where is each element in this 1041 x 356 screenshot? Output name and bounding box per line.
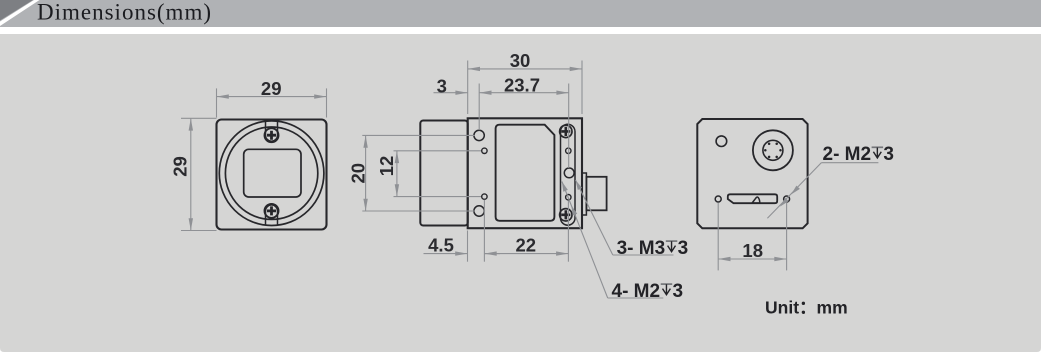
side left small hole bottom <box>482 194 487 199</box>
side top phillips screw <box>560 125 572 137</box>
side dim 4.5 line <box>424 253 468 255</box>
side connector plate <box>582 173 586 215</box>
svg-text:3: 3 <box>883 144 894 165</box>
back mount hole left <box>715 196 721 202</box>
back led hole <box>716 136 727 147</box>
front top screw <box>265 128 279 142</box>
side dim 3 line <box>434 92 468 94</box>
front dim 29 top line <box>217 96 327 98</box>
side leader 4-M2 <box>562 182 608 299</box>
side dim 12 line <box>396 151 398 197</box>
svg-text:29: 29 <box>170 156 191 177</box>
front bottom screw pocket <box>266 205 278 225</box>
back connector inner circle <box>763 140 783 160</box>
svg-text:29: 29 <box>261 78 282 99</box>
front inner lens circle <box>225 127 317 219</box>
side dim 12 extension lines <box>394 150 482 152</box>
header dark triangle <box>0 0 33 21</box>
side dim 20 extension lines <box>362 134 474 136</box>
header white stripe <box>0 0 40 26</box>
back connector outer circle <box>753 130 793 170</box>
side right small hole top <box>566 148 571 153</box>
svg-text:20: 20 <box>347 163 368 184</box>
front top screw pocket <box>266 121 278 141</box>
back mount hole right <box>784 196 790 202</box>
front dim 29 top extension lines <box>216 88 218 117</box>
svg-text:4- M2: 4- M2 <box>612 281 661 302</box>
svg-text:3- M3: 3- M3 <box>617 238 666 259</box>
svg-text:18: 18 <box>742 240 763 261</box>
front dim 29 left line <box>190 118 192 230</box>
side left small hole top <box>482 148 487 153</box>
back body square <box>697 119 807 228</box>
side leader 3-M3 <box>576 180 613 255</box>
front dim 29 left extension lines <box>181 117 217 119</box>
svg-text:30: 30 <box>510 50 531 71</box>
back dim 18 extension lines <box>717 203 719 271</box>
side bottom phillips screw <box>560 209 572 221</box>
svg-text:3: 3 <box>673 281 684 302</box>
svg-text:4.5: 4.5 <box>428 234 454 255</box>
back connector pins <box>764 142 782 158</box>
side dim 30 extension lines <box>467 61 469 115</box>
side inner panel <box>496 125 555 221</box>
side right middle hole <box>564 168 574 178</box>
side left big hole bottom <box>474 206 484 216</box>
back dim 18 line <box>718 258 786 260</box>
svg-text:3: 3 <box>678 238 689 259</box>
side body <box>468 118 582 228</box>
side right small hole bottom <box>566 195 571 200</box>
side dim 22 line <box>484 253 568 255</box>
back card slot <box>728 194 777 203</box>
side left big hole top <box>474 130 484 140</box>
side dim 23.7 line <box>479 92 569 94</box>
svg-text:2- M2: 2- M2 <box>823 144 872 165</box>
front sensor window <box>244 149 301 197</box>
side shared arrow at 484.4 <box>484 251 496 255</box>
side connector box <box>586 177 606 211</box>
back leader 2-M2 <box>767 163 821 219</box>
front bottom screw <box>265 204 279 218</box>
svg-text:23.7: 23.7 <box>504 74 540 95</box>
svg-text:22: 22 <box>516 234 537 255</box>
side dim 30 line <box>468 68 582 70</box>
svg-text:3: 3 <box>437 75 447 96</box>
side dim 23.7 extension lines <box>478 84 480 131</box>
front outer lens circle <box>219 121 324 226</box>
side right channel groove <box>561 124 576 225</box>
svg-text:12: 12 <box>376 156 397 177</box>
back slot tab <box>752 197 760 203</box>
svg-text:Unit：mm: Unit：mm <box>765 298 848 318</box>
side bottom extension lines <box>467 231 469 262</box>
front body square <box>217 120 327 230</box>
header bar <box>0 0 1041 27</box>
svg-text:Dimensions(mm): Dimensions(mm) <box>37 0 212 25</box>
side dim 20 line <box>365 135 367 211</box>
side lens flange <box>420 121 467 226</box>
